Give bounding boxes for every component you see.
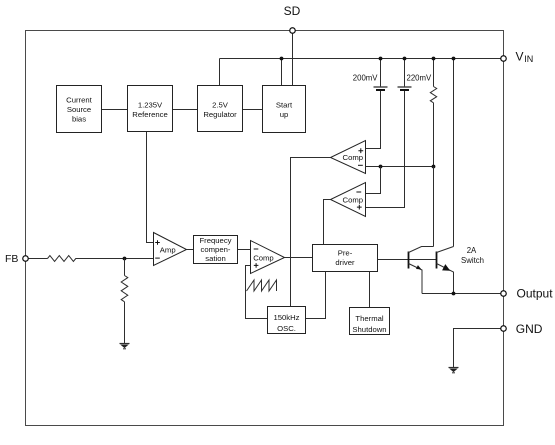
svg-text:compen-: compen-: [201, 245, 231, 254]
block: 2.5V Regulator: [198, 86, 243, 132]
svg-text:150kHz: 150kHz: [273, 313, 299, 322]
battery V1 200mV: [366, 59, 388, 149]
wire: Reference bottom down to Amp + input: [147, 132, 154, 243]
transistor Q2: [437, 247, 454, 294]
svg-text:up: up: [280, 110, 289, 119]
svg-text:Shutdown: Shutdown: [352, 325, 386, 334]
label 220mV: [407, 74, 433, 83]
wire: U1 + input: [366, 148, 381, 150]
svg-text:2.5V: 2.5V: [212, 101, 229, 110]
comparator U3 (PWM Comp): [251, 241, 285, 274]
wire: R3 branch down to Q1 collector: [433, 167, 435, 247]
amplifier Amp: [154, 233, 187, 266]
svg-text:SD: SD: [284, 4, 301, 18]
wire: Pre-driver output to Q1/Q2 base: [378, 259, 437, 261]
svg-text:Thermal: Thermal: [355, 314, 383, 323]
junction: rail-220mV: [403, 57, 407, 61]
wire: Amp output: [187, 249, 194, 251]
svg-text:Frequecy: Frequecy: [199, 236, 231, 245]
ground under R2: [120, 344, 130, 349]
svg-text:200mV: 200mV: [353, 74, 379, 83]
junction: U1- and 200mV branch: [379, 165, 383, 169]
svg-text:Reference: Reference: [132, 110, 167, 119]
wire: VIN rail: [220, 58, 504, 60]
svg-text:GND: GND: [516, 322, 543, 336]
wire: emitters to Output pin: [422, 293, 504, 295]
wire: R1 to Amp - input: [76, 258, 154, 260]
block: Current Source bias: [57, 86, 102, 133]
pin FB label: [5, 253, 18, 265]
block: 1.235V Reference: [128, 86, 173, 132]
resistor R1: [48, 256, 76, 262]
wire: SD pin down to Start up box: [292, 34, 294, 86]
pin FB circle: [23, 256, 29, 262]
pin Output: [501, 287, 553, 301]
svg-text:Current: Current: [66, 96, 92, 105]
ground under GND pin: [449, 368, 459, 373]
svg-text:Switch: Switch: [461, 256, 484, 265]
junction: emitter node: [452, 292, 456, 296]
svg-text:Amp: Amp: [160, 246, 176, 255]
block: Start up: [263, 86, 306, 133]
svg-text:IN: IN: [524, 54, 533, 64]
wire: Current bias to Reference: [102, 109, 128, 111]
svg-text:FB: FB: [5, 253, 18, 265]
wire: Pre-driver bottom to oscillator: [306, 272, 326, 319]
svg-text:OSC.: OSC.: [277, 324, 296, 333]
wire: U3 + input from oscillator: [246, 266, 268, 319]
svg-text:Comp: Comp: [343, 195, 364, 204]
wire: Regulator to Start up: [243, 109, 263, 111]
comparator U1 (upper Comp): [331, 141, 366, 174]
svg-text:Pre-: Pre-: [338, 249, 353, 258]
wire: compensation to U3 - input: [238, 249, 251, 251]
svg-text:220mV: 220mV: [407, 74, 433, 83]
label 200mV: [353, 74, 379, 83]
wire: U1 - input line to R3 branch: [366, 166, 434, 168]
junction: rail-200mV: [379, 57, 383, 61]
comparator U2 (lower Comp): [331, 183, 366, 217]
svg-text:Comp: Comp: [253, 254, 274, 263]
sawtooth waveform: [247, 280, 277, 291]
svg-text:2A: 2A: [467, 246, 477, 255]
wire: U2 output to Pre-driver top: [324, 200, 331, 245]
block: Thermal Shutdown: [350, 308, 390, 335]
svg-text:driver: driver: [335, 258, 355, 267]
junction: rail-R3: [432, 57, 436, 61]
svg-text:Start: Start: [276, 101, 293, 110]
block: 150kHz OSC: [268, 307, 306, 334]
wire: rail down to Q2 collector: [453, 59, 455, 247]
wire: FB to R1: [29, 258, 48, 260]
transistor Q1: [409, 247, 434, 294]
svg-text:Source: Source: [67, 105, 91, 114]
resistor R3 rail branch: [430, 59, 436, 167]
wire: branch down to U2 - input: [366, 167, 381, 194]
wire: Pre-driver bottom to Thermal Shutdown: [369, 272, 371, 308]
svg-text:Output: Output: [517, 287, 554, 301]
label 2A Switch: [461, 246, 484, 265]
junction: rail-Q2: [452, 57, 456, 61]
svg-text:bias: bias: [72, 115, 86, 124]
pin VIN: [501, 49, 534, 64]
wire: U3 output to Pre-driver: [285, 257, 313, 259]
svg-text:1.235V: 1.235V: [138, 101, 163, 110]
svg-text:Comp: Comp: [343, 153, 364, 162]
svg-text:sation: sation: [205, 254, 226, 263]
wire: Reference to Regulator: [173, 109, 198, 111]
wire: U1 output to oscillator: [291, 158, 331, 307]
block: Frequency compensation: [194, 236, 238, 264]
svg-text:V: V: [516, 49, 524, 63]
resistor R2 to ground: [121, 259, 128, 344]
junction: U1- and R3: [432, 165, 436, 169]
wire: rail to Start up box: [281, 59, 283, 86]
pin SD: [284, 4, 301, 33]
battery V2 220mV: [366, 59, 412, 208]
pin GND: [501, 322, 543, 336]
junction: FB node: [123, 257, 127, 261]
wire: GND pin to ground: [454, 329, 504, 368]
wire: 2.5V Regulator top to rail: [219, 59, 221, 86]
block: Pre-driver: [313, 245, 378, 272]
IC boundary: [26, 31, 504, 426]
svg-text:Regulator: Regulator: [203, 110, 237, 119]
junction: rail-startup: [280, 57, 284, 61]
